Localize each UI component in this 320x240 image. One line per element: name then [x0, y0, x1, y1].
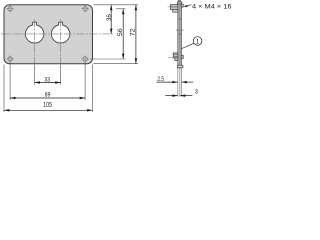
extension line top screw row right [116, 8, 126, 10]
side view layer split line [179, 2, 181, 68]
svg-text:105: 105 [43, 102, 52, 109]
side view bottom flange [178, 65, 183, 68]
dimension 56 [122, 9, 125, 59]
side view centerline dash [176, 29, 184, 31]
screw hole top-left [7, 5, 14, 12]
mounting hole 2 (22.5mm with notch) [51, 22, 69, 43]
svg-text:89: 89 [45, 91, 51, 98]
svg-text:72: 72 [129, 28, 136, 37]
vertical centerline hole 2 [60, 19, 62, 63]
svg-text:4 × M4 × 16: 4 × M4 × 16 [192, 4, 232, 11]
svg-text:36: 36 [106, 14, 113, 21]
extension line bottom screw row right [90, 58, 126, 60]
callout circle 1 [193, 37, 202, 46]
dimension 89 [10, 97, 85, 100]
side view nut bottom [175, 58, 178, 61]
extension line plate top edge right [94, 4, 139, 6]
side view main bar [178, 2, 181, 68]
svg-text:3: 3 [195, 89, 198, 96]
side view top stud [178, 1, 180, 2]
horizontal centerline through holes [1, 33, 114, 35]
svg-text:1: 1 [196, 38, 200, 45]
dimension 33 [35, 81, 61, 84]
leader to screw [184, 5, 191, 6]
svg-text:56: 56 [117, 28, 124, 37]
bottom screw axis centerline [168, 56, 173, 58]
extension line hole 2 to 33 dim [60, 65, 62, 85]
dimension 72 [135, 5, 138, 64]
extension lines bottom screws to 89 dim [9, 63, 11, 101]
side view bar tick 2 [178, 33, 181, 36]
side view M4 screw head bottom [173, 53, 178, 58]
extension lines plate edges to 105 dim [3, 65, 5, 113]
side view top flange [177, 2, 182, 4]
extension line plate bottom edge right [94, 63, 139, 65]
dimension 105 [4, 109, 93, 112]
side view nut under head [173, 9, 178, 12]
side view top right nut [181, 4, 183, 7]
adapter plate front view body [4, 5, 93, 64]
side view bar tick 1 [178, 18, 181, 21]
screw hole bottom-left [7, 55, 14, 62]
callout leader [182, 43, 194, 48]
screw hole top-right [82, 5, 89, 12]
side view bottom right nut [181, 55, 183, 58]
vertical centerline hole 1 [34, 19, 36, 63]
screw hole bottom-right [82, 55, 89, 62]
screw axis centerline [168, 6, 171, 8]
mounting hole 1 (22.5mm with notch) [25, 22, 43, 43]
dimension 36 [110, 5, 113, 34]
svg-text:33: 33 [44, 77, 50, 84]
extension lines below side view [177, 68, 179, 97]
side view M4 screw head top [170, 5, 178, 10]
extension line hole 1 to 33 dim [34, 65, 36, 85]
